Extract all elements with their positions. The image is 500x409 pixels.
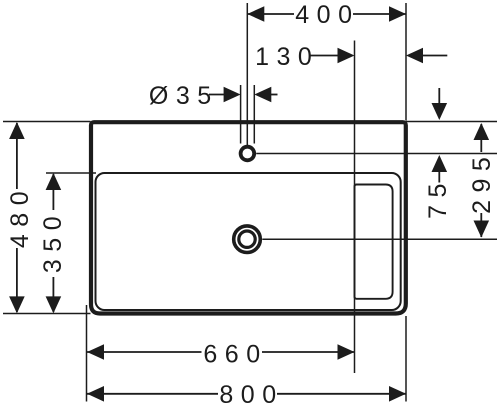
svg-text:480: 480 [6,184,34,248]
svg-text:130: 130 [255,43,319,71]
svg-text:295: 295 [468,150,496,214]
svg-text:800: 800 [219,381,283,409]
svg-text:Ø35: Ø35 [149,82,219,110]
svg-text:660: 660 [203,341,267,369]
svg-text:400: 400 [295,1,359,29]
svg-text:75: 75 [424,176,452,219]
svg-text:350: 350 [39,209,67,273]
